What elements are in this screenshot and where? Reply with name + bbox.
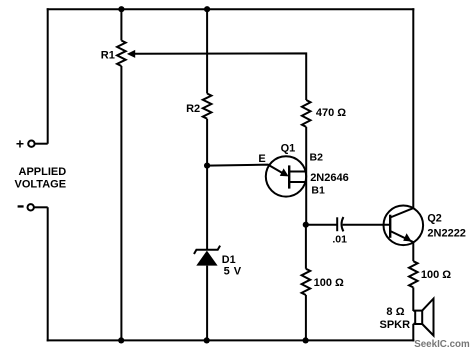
svg-text:R2: R2: [186, 103, 200, 115]
resistor 100 ohm (B1 load): [302, 269, 311, 295]
wire Q2 emitter to 100 ohm: [412, 242, 414, 261]
Q2 emitter arrowhead: [403, 233, 411, 241]
speaker stub top: [413, 310, 415, 312]
svg-text:D1: D1: [222, 254, 236, 266]
capacitor C1 right plate: [342, 217, 344, 231]
terminal -: [28, 204, 34, 210]
junction dot bottom 100 ohm: [303, 337, 309, 343]
junction dot emitter tap: [204, 163, 210, 169]
wire capacitor to Q2 base: [343, 224, 391, 226]
svg-text:100 Ω: 100 Ω: [314, 277, 344, 289]
speaker stub bottom: [413, 323, 415, 325]
Q2 base bar: [389, 215, 391, 238]
speaker LS1 box: [415, 311, 422, 324]
svg-text:APPLIED: APPLIED: [19, 166, 67, 178]
wire junction to 100 ohm B1: [305, 225, 307, 269]
wire right rail top (collector to top bus): [412, 8, 414, 208]
capacitor C1 left plate: [336, 217, 338, 231]
Q1 emitter arrowhead: [280, 168, 289, 176]
svg-text:SeekIC.com: SeekIC.com: [414, 339, 470, 350]
svg-text:.01: .01: [332, 234, 347, 246]
junction dot top R1: [118, 6, 124, 12]
svg-text:Q2: Q2: [427, 212, 441, 224]
wire + terminal stub: [35, 143, 48, 145]
svg-text:B1: B1: [311, 185, 325, 197]
svg-text:SPKR: SPKR: [380, 319, 411, 331]
wire left rail upper: [47, 8, 49, 144]
Q1 B2 lead: [289, 171, 306, 173]
R1 wiper arrow: [127, 50, 135, 58]
wire top bus: [47, 8, 415, 10]
svg-text:B2: B2: [310, 152, 324, 164]
svg-text:2N2222: 2N2222: [427, 227, 466, 239]
resistor R1 (potentiometer): [117, 41, 126, 67]
transistor Q2 circle: [384, 206, 424, 246]
wire 100 ohm B1 to bottom bus: [305, 295, 307, 340]
wire - terminal stub: [34, 206, 47, 208]
wire 470 to Q1/B2 rail: [305, 127, 307, 225]
svg-text:100 Ω: 100 Ω: [421, 269, 451, 281]
resistor 100 ohm (emitter): [409, 261, 418, 287]
wire speaker to bottom bus: [412, 324, 414, 342]
svg-text:VOLTAGE: VOLTAGE: [15, 179, 67, 191]
zener diode D1 triangle: [196, 251, 217, 266]
speaker LS1 cone: [422, 299, 433, 336]
svg-text:2N2646: 2N2646: [310, 172, 349, 184]
Q1 B1 lead: [289, 181, 306, 183]
wire 100 ohm to speaker: [412, 287, 414, 311]
wire R1 wiper to 470 ohm corner: [134, 53, 306, 100]
wire R1 branch top: [120, 9, 122, 40]
wire D1 to bottom: [206, 266, 208, 341]
svg-text:Q1: Q1: [281, 142, 296, 154]
label minus: [18, 205, 24, 207]
wire R2 branch top: [206, 9, 208, 93]
junction dot top R2: [204, 6, 210, 12]
svg-text:5 V: 5 V: [224, 266, 242, 278]
zener diode D1 bar: [194, 246, 220, 254]
svg-text:470 Ω: 470 Ω: [316, 107, 346, 119]
wire R1 branch bottom: [120, 66, 122, 340]
wire Q1 emitter: [207, 165, 283, 174]
Q2 collector lead: [390, 208, 413, 217]
resistor 470 ohm: [302, 100, 311, 127]
junction dot cap tap: [303, 222, 309, 228]
wire left rail lower: [47, 207, 49, 341]
wire R2 to D1: [206, 119, 208, 250]
wire junction to capacitor: [306, 224, 337, 226]
svg-text:+: +: [16, 136, 24, 152]
junction dot bottom R2: [204, 337, 210, 343]
svg-text:E: E: [258, 153, 265, 165]
wire bottom bus: [47, 339, 415, 341]
terminal +: [28, 141, 34, 147]
junction dot bottom R1: [118, 337, 124, 343]
resistor R2: [203, 94, 212, 119]
svg-text:R1: R1: [101, 50, 115, 62]
Q1 base bar: [288, 165, 290, 188]
Q2 emitter lead: [390, 231, 413, 242]
svg-text:8 Ω: 8 Ω: [386, 306, 404, 318]
transistor Q1 circle: [266, 156, 306, 196]
